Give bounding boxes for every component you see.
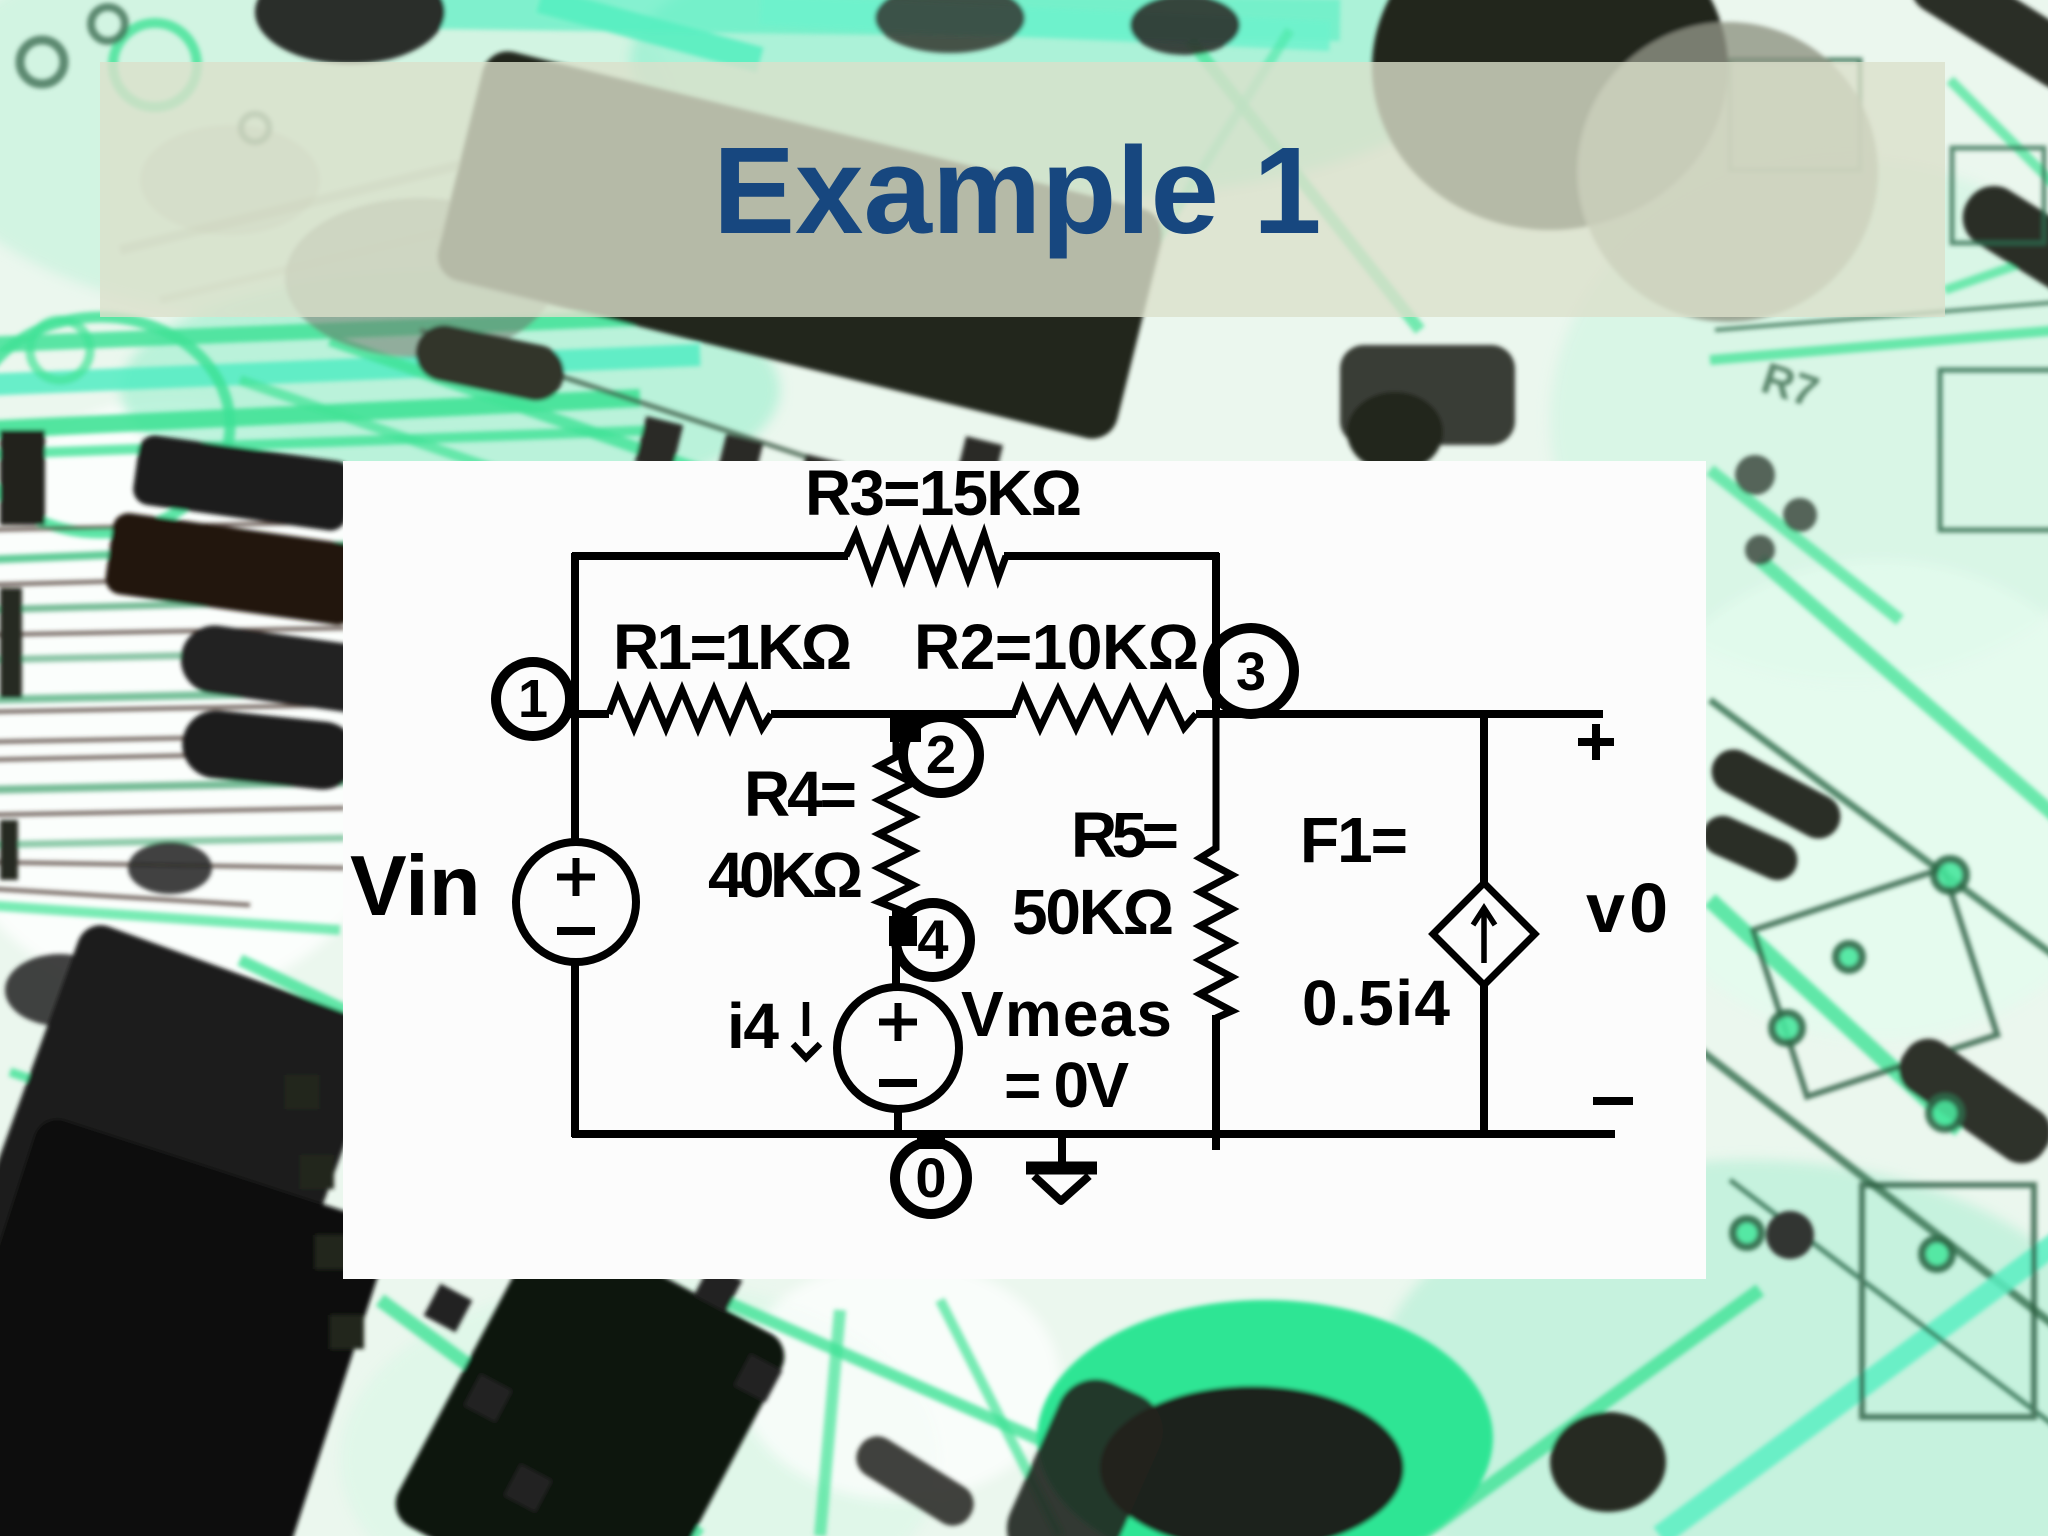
wire: top rail left segment — [572, 552, 848, 560]
voltage source Vmeas — [837, 987, 959, 1109]
junction blob at node 0 — [917, 1131, 945, 1149]
node 4 — [896, 903, 970, 977]
svg-text:R1=1KΩ: R1=1KΩ — [613, 611, 852, 683]
resistor R3 — [846, 534, 1006, 578]
output minus terminal — [1593, 1097, 1633, 1105]
voltage source Vin — [516, 842, 636, 962]
wire: main rail from node 1 to R1 — [563, 710, 609, 718]
svg-text:R2=10KΩ: R2=10KΩ — [914, 611, 1199, 683]
svg-text:= 0V: = 0V — [1004, 1049, 1129, 1121]
svg-text:Vmeas: Vmeas — [961, 978, 1172, 1050]
node 2 — [903, 717, 979, 793]
resistor R2 — [1014, 690, 1196, 728]
node 0 — [895, 1142, 967, 1214]
svg-text:2: 2 — [926, 725, 956, 785]
resistor R5 — [1200, 716, 1232, 1018]
svg-text:R4=: R4= — [744, 758, 857, 830]
svg-text:0.5i4: 0.5i4 — [1302, 967, 1450, 1039]
wire: R5 bottom to bottom rail — [1212, 1015, 1220, 1150]
wire: main rail from R2 through node 3 to output — [1196, 710, 1603, 718]
svg-text:40KΩ: 40KΩ — [708, 839, 863, 911]
svg-text:1: 1 — [518, 669, 548, 729]
bottom rail wire — [572, 1130, 1615, 1138]
node 1 — [496, 662, 570, 736]
svg-text:i4: i4 — [727, 990, 779, 1062]
dark components — [285, 198, 555, 358]
wire: top rail right segment — [1004, 552, 1219, 560]
svg-text:0: 0 — [915, 1146, 946, 1209]
junction blob at node 4 — [889, 916, 917, 946]
wire: main rail between R1 and R2 — [771, 710, 1016, 718]
wire: Vmeas bottom to bottom rail — [894, 1107, 902, 1137]
svg-text:4: 4 — [917, 908, 948, 971]
node 3 — [1208, 628, 1294, 714]
wire: F1 branch bottom — [1480, 983, 1488, 1134]
wire: left vertical from Vin bottom to bottom rail — [571, 961, 579, 1137]
wire: left vertical from top loop down to Vin top — [571, 553, 579, 843]
svg-text:v0: v0 — [1586, 869, 1668, 947]
svg-text:50KΩ: 50KΩ — [1012, 876, 1174, 948]
svg-text:R5=: R5= — [1071, 799, 1179, 871]
current source F1 (diamond) — [1433, 883, 1535, 985]
i4 current arrow — [793, 1002, 820, 1058]
svg-text:R3=15KΩ: R3=15KΩ — [805, 457, 1082, 529]
resistor R4 — [879, 714, 913, 912]
svg-text:3: 3 — [1236, 642, 1266, 702]
resistor R1 — [609, 690, 771, 728]
svg-text:F1=: F1= — [1300, 804, 1408, 876]
wire: right vertical of top loop down to main rail — [1212, 553, 1220, 718]
svg-text:Vin: Vin — [350, 839, 481, 934]
wire: R4 bottom to Vmeas top — [892, 908, 900, 990]
wire: F1 branch top — [1480, 714, 1488, 886]
ground stem — [1058, 1134, 1066, 1168]
output plus terminal — [1578, 724, 1614, 760]
ground symbol — [1026, 1162, 1097, 1175]
junction blob at node 2 — [890, 711, 921, 742]
